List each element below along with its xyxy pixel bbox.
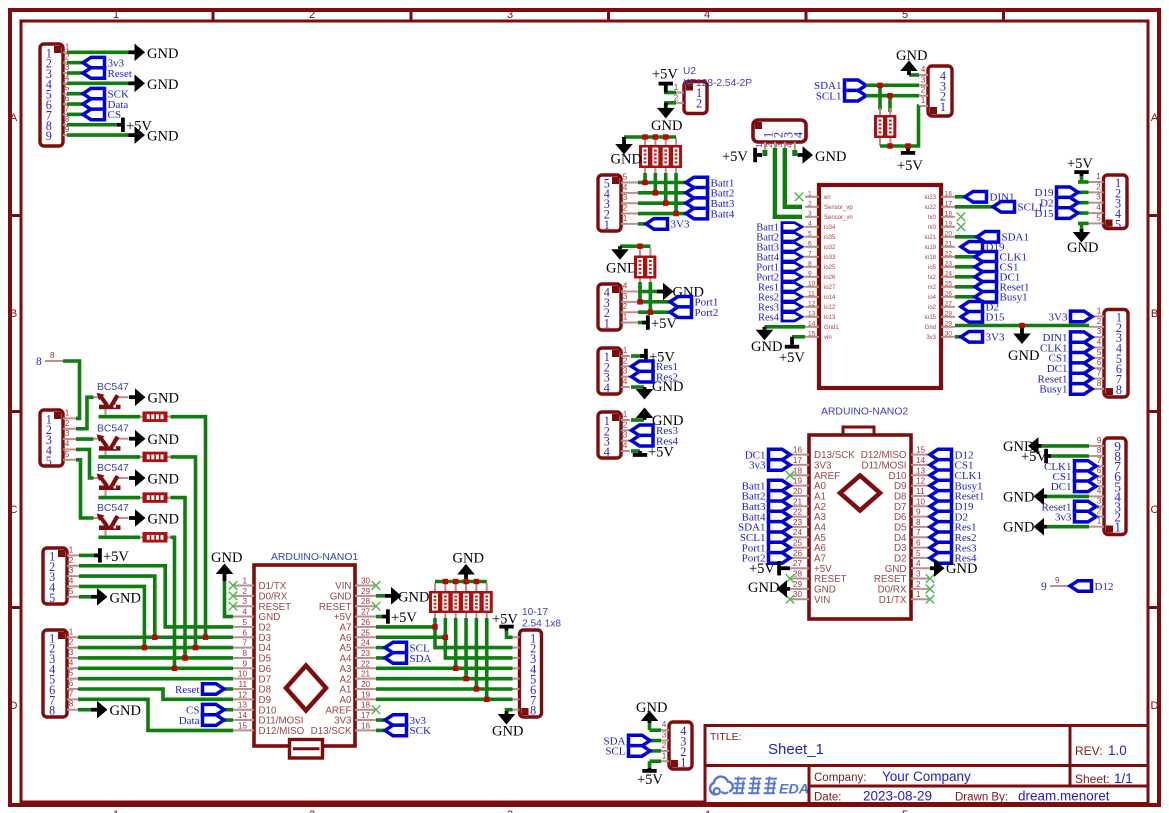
svg-text:3: 3 xyxy=(921,75,926,84)
wire CN15 pin3 xyxy=(650,739,661,743)
svg-text:1: 1 xyxy=(662,751,667,760)
wire CN1 pin6 xyxy=(67,102,83,106)
svg-text:io23: io23 xyxy=(925,195,937,201)
svg-text:io2: io2 xyxy=(928,305,937,311)
net label CS1 at CN13 pin6 xyxy=(1053,471,1096,483)
net label Busy1 at IC pin26 xyxy=(975,292,1028,304)
wire RN1 el1 down xyxy=(643,173,647,183)
svg-text:3: 3 xyxy=(1096,193,1101,202)
ground GND at CN4 pin8 xyxy=(91,701,141,719)
svg-text:io13: io13 xyxy=(824,315,836,321)
svg-text:D: D xyxy=(10,700,18,712)
net label 3v3 at NANO1 pin17 xyxy=(376,715,427,727)
wire pullup R5 top xyxy=(878,85,882,110)
svg-text:30: 30 xyxy=(945,330,953,337)
no-connect NANO2 left pins 18 28 30 xyxy=(786,471,795,604)
svg-text:4: 4 xyxy=(604,381,610,395)
title text Date: 2023-08-29 Drawn By: dream.menoret xyxy=(814,789,1110,804)
net label Data xyxy=(83,99,128,111)
svg-text:GND: GND xyxy=(1008,348,1039,364)
junction pullup1 xyxy=(878,83,882,87)
net label DIN1 at IC pin16 xyxy=(965,192,1015,204)
net label CS at NANO1 pin13 xyxy=(186,704,233,716)
svg-text:21: 21 xyxy=(945,240,953,247)
wire CN14 pin2 to IC pin3 xyxy=(775,148,802,217)
net label SDA1 xyxy=(814,80,866,92)
svg-text:5: 5 xyxy=(808,230,812,237)
connector U2 2-pin xyxy=(673,82,707,114)
node 8 free pin xyxy=(36,351,63,368)
svg-text:io33: io33 xyxy=(824,255,836,261)
svg-text:+5V: +5V xyxy=(391,610,417,626)
svg-text:1: 1 xyxy=(921,96,926,105)
svg-text:10-17: 10-17 xyxy=(522,607,548,618)
wire RN2 top bus xyxy=(620,244,650,248)
connector CN6 1x8 xyxy=(1089,306,1128,397)
wire CN8 pin3 xyxy=(866,84,919,88)
wire CN10 pin2 to Port2 xyxy=(638,310,670,314)
svg-text:8: 8 xyxy=(1097,379,1102,388)
wire CN7 pin4 xyxy=(1078,211,1089,215)
svg-text:13: 13 xyxy=(238,701,248,710)
wire IC pin15 to +5V xyxy=(792,335,805,339)
net label CLK1 at CN13 pin7 xyxy=(1044,461,1096,473)
net label SCK xyxy=(83,88,129,100)
svg-text:4: 4 xyxy=(662,720,667,729)
svg-text:EDA: EDA xyxy=(779,782,809,798)
ground GND at NANO1 pin29 xyxy=(385,587,429,605)
svg-text:8: 8 xyxy=(50,351,55,360)
svg-text:D6: D6 xyxy=(259,664,272,675)
ground GND at NANO2 pin4 xyxy=(930,559,977,577)
logo JLC EDA xyxy=(710,777,809,798)
power +5V at pullup bus xyxy=(897,146,923,174)
net label Res1 at NANO2 right xyxy=(930,522,977,534)
op-amp U3 ARDUINO-NANO1 body xyxy=(254,565,355,758)
net label Res2 at IC pin11 xyxy=(758,293,802,304)
wire NANO1 pin26 to net xyxy=(376,625,435,629)
ground GND above CN15 xyxy=(636,700,667,723)
connector CN4 1x8 xyxy=(43,627,78,717)
connector CN13 1x9 xyxy=(1089,436,1126,535)
net label Port1 at IC pin8 xyxy=(756,263,802,274)
svg-text:7: 7 xyxy=(916,528,921,537)
junction xyxy=(888,144,892,148)
svg-text:GND: GND xyxy=(1003,520,1034,536)
svg-text:Sheet:: Sheet: xyxy=(1075,772,1110,786)
svg-text:D1/TX: D1/TX xyxy=(259,581,287,592)
title block frame xyxy=(705,726,1148,804)
ground GND at CN1 pin4 xyxy=(129,75,179,93)
wire CN7 pin1 to +5V xyxy=(1078,180,1089,184)
net label DC1 at IC pin24 xyxy=(975,272,1020,284)
wire IC pin30 xyxy=(955,335,961,339)
svg-text:+5V: +5V xyxy=(334,612,352,623)
title text TITLE: Sheet_1 xyxy=(710,731,824,758)
svg-text:+5V: +5V xyxy=(1067,156,1093,172)
svg-text:6: 6 xyxy=(1097,466,1102,475)
ground GND on bus xyxy=(1008,326,1039,365)
svg-text:3v3: 3v3 xyxy=(926,335,936,341)
wire CN9 pin1 to 3V3 xyxy=(638,222,646,226)
svg-text:7: 7 xyxy=(242,639,247,648)
net label 3v3 at CN13 pin2 xyxy=(1055,511,1096,523)
wire CN8 pin4 to GND xyxy=(909,73,919,77)
svg-text:3: 3 xyxy=(662,731,667,740)
resistor R2 xyxy=(140,452,173,463)
svg-text:A7: A7 xyxy=(340,623,352,634)
connector CN9 1x5 xyxy=(598,173,638,232)
svg-text:C: C xyxy=(10,504,18,516)
svg-text:+5V: +5V xyxy=(722,149,748,165)
svg-text:3: 3 xyxy=(1097,327,1102,336)
net label Port1 xyxy=(670,297,718,309)
svg-text:2.54 1x8: 2.54 1x8 xyxy=(522,619,561,630)
wire CN1 pin4 to GND xyxy=(67,82,129,86)
svg-text:4: 4 xyxy=(785,143,794,148)
svg-text:BC547: BC547 xyxy=(97,463,129,474)
junction xyxy=(485,697,489,701)
title text Company: Your Company xyxy=(814,769,971,784)
wire CN4 pin6 to NANO1 D9 xyxy=(78,689,233,699)
net label Res3 at IC pin12 xyxy=(758,303,802,314)
svg-text:Drawn By:: Drawn By: xyxy=(955,792,1008,804)
wire CN13 pin4 to GND xyxy=(1047,495,1089,499)
junction xyxy=(906,144,910,148)
wire RN1 el4 down xyxy=(674,173,678,214)
svg-text:4: 4 xyxy=(69,576,74,585)
junction RN2 el1 xyxy=(638,300,642,304)
svg-text:8: 8 xyxy=(49,704,55,718)
svg-text:TITLE:: TITLE: xyxy=(710,731,742,743)
ARDUINO-NANO1 left pins xyxy=(233,577,305,738)
no-connect marks NANO1 right pins 30 28 18 xyxy=(372,581,381,714)
svg-text:1: 1 xyxy=(113,9,119,21)
net label CS xyxy=(83,109,121,121)
svg-text:26: 26 xyxy=(793,549,803,558)
frame row ticks and letters xyxy=(8,112,1161,712)
svg-text:4: 4 xyxy=(623,282,628,291)
ground GND at IC pin14 xyxy=(751,327,782,355)
svg-text:2: 2 xyxy=(623,356,628,365)
svg-text:4: 4 xyxy=(704,9,710,21)
svg-text:A4: A4 xyxy=(340,654,353,665)
svg-text:8: 8 xyxy=(69,700,74,709)
wire RN1 top bus to GND xyxy=(624,135,676,139)
wire CN15 pin4 to GND xyxy=(650,728,662,732)
connector CN10 1x4 xyxy=(598,282,638,331)
svg-text:21: 21 xyxy=(361,670,371,679)
svg-text:GND: GND xyxy=(330,591,352,602)
wire CN1 pin9 to GND xyxy=(67,133,129,137)
svg-text:9: 9 xyxy=(1055,576,1060,585)
net label CLK1 at CN6 pin4 xyxy=(1040,342,1092,354)
power +5V at U2 pin1 xyxy=(652,67,678,93)
svg-text:9: 9 xyxy=(916,508,921,517)
net label Batt1 xyxy=(686,177,734,189)
svg-text:29: 29 xyxy=(793,580,803,589)
svg-text:3: 3 xyxy=(1097,497,1102,506)
svg-text:5: 5 xyxy=(69,587,74,596)
net label Reset at NANO1 pin11 xyxy=(175,684,233,696)
svg-text:4: 4 xyxy=(69,658,74,667)
svg-text:5: 5 xyxy=(69,669,74,678)
ARDUINO-NANO1 right pins xyxy=(311,577,376,738)
wire IC pin16 xyxy=(955,195,965,199)
net label Reset1 at IC pin25 xyxy=(975,282,1029,294)
ground GND at Q1 collector xyxy=(129,388,179,406)
svg-text:D8: D8 xyxy=(259,685,272,696)
net label Batt1 at IC pin4 xyxy=(756,223,802,234)
ground GND below CN7 xyxy=(1067,223,1098,256)
net label Data at NANO1 pin14 xyxy=(179,715,233,727)
wire CN4 pin1 to NANO1 D3 xyxy=(78,635,233,639)
ground GND at CN1 pin9 xyxy=(129,126,179,144)
svg-text:4: 4 xyxy=(808,220,812,227)
svg-text:2: 2 xyxy=(69,638,74,647)
svg-text:4: 4 xyxy=(791,132,805,138)
svg-text:14: 14 xyxy=(808,320,816,327)
svg-text:6: 6 xyxy=(242,628,247,637)
svg-text:1.0: 1.0 xyxy=(1108,743,1127,758)
net label Reset xyxy=(83,68,132,80)
svg-text:3V3: 3V3 xyxy=(334,716,352,727)
net label 3v3 at NANO2 left xyxy=(749,460,790,472)
net label SCL1 xyxy=(816,90,866,102)
svg-text:8: 8 xyxy=(1116,383,1122,397)
net label D2 at IC pin27 xyxy=(961,302,999,314)
wire RN3 element 1 down xyxy=(435,618,513,648)
svg-text:28: 28 xyxy=(793,570,803,579)
power +5V at CN1 pin8 xyxy=(117,118,152,135)
svg-text:3: 3 xyxy=(808,210,812,217)
svg-text:Port2: Port2 xyxy=(695,307,719,319)
ground GND at NANO2 pin29 xyxy=(748,580,790,598)
transistor Q2 BC547 xyxy=(92,434,129,458)
no-connect NANO2 right pins 3 2 1 xyxy=(926,574,935,603)
wire CN4 pin8 to GND xyxy=(78,708,91,712)
svg-text:GND: GND xyxy=(651,118,682,134)
svg-text:GND: GND xyxy=(1003,489,1034,505)
wire CN14 pin4 to GND xyxy=(792,150,797,156)
svg-text:18: 18 xyxy=(361,701,371,710)
net label SDA1 at NANO2 left xyxy=(738,522,790,534)
svg-text:io25: io25 xyxy=(824,265,836,271)
svg-text:15: 15 xyxy=(808,330,816,337)
no-connect marks NANO1 left pins 1-3 xyxy=(229,581,238,610)
svg-text:8: 8 xyxy=(36,356,42,368)
wire R2 to NANO1 bus xyxy=(171,457,196,648)
svg-text:6: 6 xyxy=(808,240,812,247)
wire IC pin26 xyxy=(955,295,975,299)
svg-text:io26: io26 xyxy=(824,275,836,281)
power +5V at NANO1 pin27 xyxy=(376,609,417,626)
wire CN15 pin2 xyxy=(650,749,661,753)
svg-text:ARDUINO-NANO1: ARDUINO-NANO1 xyxy=(271,552,358,563)
svg-text:GND: GND xyxy=(147,129,178,145)
junction RN2 bus xyxy=(638,244,642,248)
svg-text:GND: GND xyxy=(211,550,242,566)
ARDUINO-NANO2 left pins xyxy=(790,446,855,606)
svg-text:Sensor_vp: Sensor_vp xyxy=(824,205,853,211)
svg-text:+5V: +5V xyxy=(779,350,805,366)
wire IC pin14 to GND xyxy=(765,325,806,329)
resistor network RN4 pullups xyxy=(874,108,896,146)
connector CN5 label 10-17 2.54 1x8 xyxy=(522,607,561,630)
net label Batt4 at NANO2 left xyxy=(742,511,790,523)
svg-text:9: 9 xyxy=(46,129,52,143)
svg-text:2: 2 xyxy=(623,204,628,213)
svg-text:5: 5 xyxy=(1096,213,1101,222)
wire CN4 pin5 to NANO1 D7 xyxy=(78,677,233,681)
svg-text:2: 2 xyxy=(309,809,315,813)
svg-text:RESET: RESET xyxy=(259,602,292,613)
svg-text:A0: A0 xyxy=(340,695,353,706)
wire CN1 pin1 to GND xyxy=(67,50,129,54)
ground GND below CN5 pin8 xyxy=(492,710,523,740)
svg-text:19: 19 xyxy=(793,477,803,486)
wire CN2 pin4 to Q3 base xyxy=(76,449,94,478)
svg-text:+5V: +5V xyxy=(897,158,923,174)
svg-text:4: 4 xyxy=(1096,203,1101,212)
net label D15 at CN7 xyxy=(1035,208,1078,220)
net label Batt1 at NANO2 left xyxy=(742,480,790,492)
svg-text:20: 20 xyxy=(945,230,953,237)
svg-text:2: 2 xyxy=(696,97,702,111)
no-connect IC pins 18 19 xyxy=(957,213,966,232)
net label SCL xyxy=(605,746,650,758)
svg-text:io32: io32 xyxy=(824,245,836,251)
svg-text:Sheet_1: Sheet_1 xyxy=(768,741,824,758)
net label CLK1 at NANO2 right xyxy=(930,470,982,482)
wire CN2 pin2 to Q1 base xyxy=(76,397,94,429)
svg-text:27: 27 xyxy=(945,300,953,307)
svg-text:2: 2 xyxy=(662,741,667,750)
svg-text:7: 7 xyxy=(1097,456,1102,465)
svg-text:28: 28 xyxy=(361,597,371,606)
svg-text:18: 18 xyxy=(945,210,953,217)
junction RN1 el1 xyxy=(643,180,647,184)
svg-text:1: 1 xyxy=(1097,306,1102,315)
net label D19 at NANO2 right xyxy=(930,501,974,513)
svg-text:10: 10 xyxy=(808,280,816,287)
svg-text:GND: GND xyxy=(748,580,779,596)
wire CN2 pin3 to Q2 base xyxy=(76,437,94,441)
net label D19 at IC pin21 xyxy=(961,242,1005,254)
svg-text:27: 27 xyxy=(793,559,803,568)
svg-text:13: 13 xyxy=(808,310,816,317)
net label D2 at NANO2 right xyxy=(930,511,968,523)
svg-text:22: 22 xyxy=(945,250,953,257)
junction xyxy=(454,666,458,670)
svg-text:3: 3 xyxy=(623,367,628,376)
svg-text:D5: D5 xyxy=(259,654,272,665)
svg-text:29: 29 xyxy=(361,587,371,596)
net label Batt2 at NANO2 left xyxy=(742,491,790,503)
junction GND bus xyxy=(1020,323,1024,327)
svg-text:26: 26 xyxy=(945,290,953,297)
svg-text:D3: D3 xyxy=(259,633,272,644)
svg-text:D10: D10 xyxy=(259,705,278,716)
junction xyxy=(474,687,478,691)
svg-text:D0/RX: D0/RX xyxy=(259,591,288,602)
svg-text:29: 29 xyxy=(945,320,953,327)
svg-text:A3: A3 xyxy=(340,664,353,675)
svg-text:1: 1 xyxy=(674,83,679,92)
connector CN3 1x5 xyxy=(43,545,79,604)
wire CN1 pin8 to +5V xyxy=(67,123,117,127)
wire CN3 pin5 to GND xyxy=(79,595,91,599)
wire U2 pin1 to +5V xyxy=(664,91,676,95)
svg-text:rx2: rx2 xyxy=(928,285,937,291)
svg-text:2: 2 xyxy=(65,419,70,428)
wire Q1 emitter to resistor xyxy=(99,415,141,419)
svg-text:3: 3 xyxy=(65,429,70,438)
svg-text:5: 5 xyxy=(242,618,247,627)
junction at R4 bus xyxy=(172,666,176,670)
svg-text:SCK: SCK xyxy=(410,725,431,737)
wire CN3 pin3 to D3 net xyxy=(79,576,155,637)
net label SCL at NANO1 pin24 xyxy=(376,642,430,654)
svg-text:GND: GND xyxy=(147,77,178,93)
net label D2 at CN7 xyxy=(1040,197,1078,209)
svg-text:2: 2 xyxy=(1097,317,1102,326)
net label Reset1 at CN13 pin3 xyxy=(1042,501,1096,513)
svg-text:6: 6 xyxy=(69,679,74,688)
wire CN13 pin1 to GND xyxy=(1047,525,1089,529)
junction CN3 pin4 net xyxy=(142,645,146,649)
svg-text:3: 3 xyxy=(775,143,784,148)
wire CN12 pin3 xyxy=(631,439,640,443)
net label Batt3 xyxy=(686,198,735,210)
wire R1 to NANO1 bus xyxy=(171,417,206,638)
svg-text:+5V: +5V xyxy=(648,445,674,461)
svg-text:ARDUINO-NANO2: ARDUINO-NANO2 xyxy=(821,407,908,418)
connector CN1 1x9 xyxy=(40,42,70,146)
svg-text:3: 3 xyxy=(916,570,921,579)
svg-text:11: 11 xyxy=(239,680,248,689)
svg-text:3: 3 xyxy=(69,648,74,657)
wire CN3 pin2 to NANO1 D2 xyxy=(79,566,233,627)
net label Res2 xyxy=(632,371,679,383)
svg-text:D15: D15 xyxy=(986,312,1005,324)
net label DC1 at CN6 pin6 xyxy=(1047,363,1092,375)
junction at R1 bus xyxy=(203,635,207,639)
svg-text:3: 3 xyxy=(69,566,74,575)
net label SCL1 at IC pin17 xyxy=(993,202,1043,214)
net label Res4 at IC pin13 xyxy=(758,313,802,324)
svg-text:GND: GND xyxy=(148,432,179,448)
wire RN1 el3 down xyxy=(664,173,668,203)
wire CN8 pin2 xyxy=(866,94,919,98)
svg-text:2023-08-29: 2023-08-29 xyxy=(863,789,932,804)
svg-text:25: 25 xyxy=(793,539,803,548)
svg-text:io19: io19 xyxy=(925,245,937,251)
svg-text:10: 10 xyxy=(238,670,248,679)
junction at R3 bus xyxy=(183,656,187,660)
wire RN3 element 5 down xyxy=(476,618,512,689)
net label DIN1 at CN6 pin3 xyxy=(1042,332,1092,344)
net label Batt4 xyxy=(686,208,735,220)
wire CN12 pin4 to +5V xyxy=(631,449,640,453)
IC U1 ESP32 module body xyxy=(819,185,941,388)
svg-text:A: A xyxy=(10,112,18,124)
svg-text:23: 23 xyxy=(945,260,953,267)
net label Busy1 at NANO2 right xyxy=(930,480,983,492)
op-amp U4 ARDUINO-NANO2 body xyxy=(809,427,911,619)
wire NANO1 pin29 to GND xyxy=(376,594,385,598)
svg-text:1: 1 xyxy=(623,410,628,419)
